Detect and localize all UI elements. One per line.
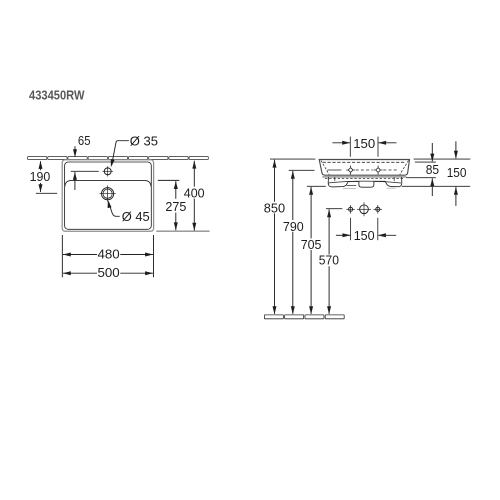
floor hatch strip (264, 315, 344, 319)
faucet hole (diam 35) (103, 166, 113, 176)
elevation body bottom second line (322, 176, 406, 178)
extension lines right side (85 / 150) (414, 158, 471, 160)
svg-text:150: 150 (353, 136, 375, 151)
dimension 705 (underside height) (307, 185, 326, 187)
svg-text:65: 65 (78, 133, 91, 148)
svg-text:433450RW: 433450RW (29, 88, 85, 102)
dimension 850 (rim height) (270, 158, 315, 160)
svg-text:850: 850 (264, 201, 285, 216)
svg-text:Ø 45: Ø 45 (122, 209, 150, 224)
bowl back edge line (65, 180, 151, 186)
svg-text:150: 150 (354, 228, 375, 243)
elevation bottom hidden line (dashed) (325, 178, 404, 180)
svg-text:Ø 35: Ø 35 (130, 134, 158, 149)
dimension 500 (overall width) (63, 271, 71, 275)
dimension 570 (mounting bolt height) (326, 208, 342, 210)
extension line through faucet centre (71, 170, 99, 172)
svg-text:190: 190 (30, 169, 51, 184)
dimension 150 bottom (bolt spacing) (350, 218, 352, 240)
drain hole (diam 45) (99, 186, 115, 202)
svg-text:275: 275 (165, 199, 186, 214)
svg-text:150: 150 (447, 165, 467, 180)
elevation hidden rim line (dashed) (323, 161, 405, 163)
right mounting bolt symbol (374, 205, 383, 214)
svg-text:480: 480 (98, 247, 120, 262)
basin outer rim (plan view, 500x400) (62, 160, 153, 231)
elevation corner diagonals (dashed) (321, 160, 329, 174)
left fixing hole (diamond) (346, 166, 355, 175)
extension lines for 480/500 (61, 235, 63, 277)
dimension 400 (overall depth) (192, 161, 196, 169)
dimension 150 right (overall height of basin body) (455, 141, 457, 158)
dimension 790 (fixing hole height) (289, 169, 315, 171)
underside trap outline (328, 177, 402, 187)
fixing hole centreline (327, 169, 341, 171)
svg-text:500: 500 (98, 265, 120, 280)
right fixing hole (diamond) (374, 166, 383, 175)
underside inner detail lines (334, 177, 336, 181)
svg-text:400: 400 (184, 186, 205, 201)
left mounting bolt symbol (346, 205, 355, 214)
dimension 480 (bowl width) (63, 253, 71, 257)
svg-text:790: 790 (283, 219, 304, 234)
mounting centre symbol (large circle) (357, 202, 371, 216)
svg-text:570: 570 (319, 253, 339, 268)
underside back edge arc (328, 181, 401, 183)
svg-text:85: 85 (426, 162, 439, 177)
wall hatch strip (plan view) (28, 157, 209, 160)
dimension 85 (rim band height) (431, 143, 433, 161)
basin bottom edge extension (thick grey) (156, 230, 209, 232)
dimension 190 (wall to drain centre) (40, 161, 42, 170)
svg-text:705: 705 (301, 237, 322, 252)
dimension 150 top (fixing hole spacing) (349, 137, 351, 157)
basin front elevation outline (319, 160, 409, 176)
dimension 275 (vertical, right of basin) (158, 179, 180, 181)
basin inner rim edge (65, 162, 152, 229)
